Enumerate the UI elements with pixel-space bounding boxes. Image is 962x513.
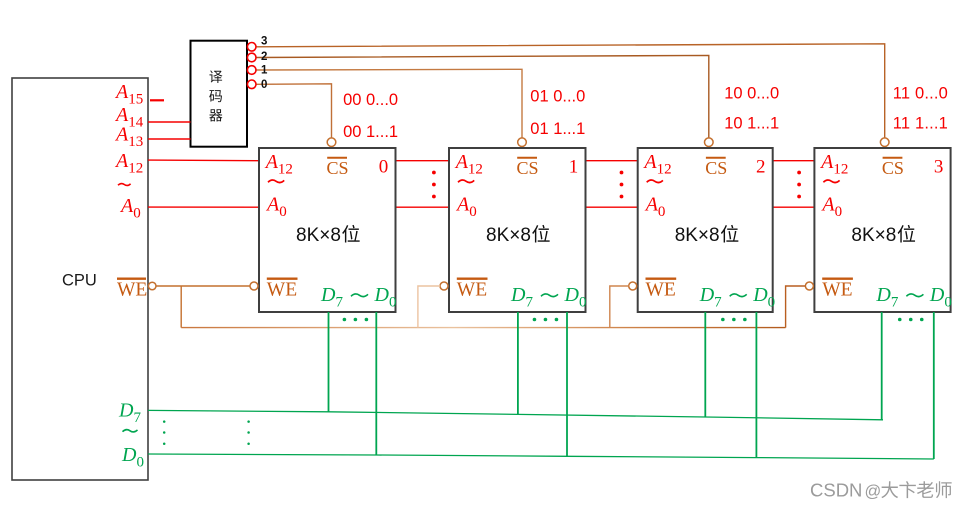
svg-text:CPU: CPU (62, 272, 97, 290)
green ellipsis x=248.6 (247, 420, 250, 445)
wire D7 vertical chip3 (704, 312, 706, 417)
green dots below chip1 (343, 318, 369, 322)
svg-text:01 0...0: 01 0...0 (530, 88, 585, 106)
svg-text:00 1...1: 00 1...1 (343, 123, 398, 141)
svg-text:8K×8: 8K×8 (851, 225, 896, 246)
memory chip 3 box (638, 148, 773, 312)
CS input circle chip4 (880, 138, 889, 147)
wire D0 vertical chip1 (375, 312, 377, 455)
memory chip 2 box (449, 148, 586, 312)
CPU box (12, 78, 148, 480)
svg-text:@: @ (865, 483, 882, 501)
svg-text:WE: WE (117, 279, 147, 300)
wire D7 vertical chip1 (328, 312, 330, 412)
CS input circle chip2 (518, 138, 527, 147)
chip2 WE label (457, 278, 488, 280)
memory chip 1 box (259, 148, 396, 312)
wire D7 vertical chip4 (881, 312, 883, 420)
D0 bus (148, 454, 934, 459)
chip3 CS label (706, 157, 726, 159)
decoder output circle 3 (247, 43, 256, 52)
svg-text:10 1...1: 10 1...1 (724, 115, 779, 133)
wire A12 CPU-chip1 (148, 159, 259, 162)
decoder output circle 1 (247, 66, 256, 75)
svg-text:0: 0 (379, 156, 389, 177)
green dots below chip2 (533, 318, 559, 322)
wire A0 chip1-chip2 (396, 206, 450, 208)
chip1 CS label (327, 157, 347, 159)
svg-text:CS: CS (882, 158, 904, 178)
wire A12 chip1-chip2 (396, 160, 450, 162)
svg-text:8K×8: 8K×8 (675, 225, 720, 246)
chip4 WE label (822, 278, 853, 280)
svg-text:8K×8: 8K×8 (296, 225, 341, 246)
chip4 tilde (823, 180, 839, 183)
wire A0 CPU-chip1 (148, 206, 259, 208)
D7 bus (148, 410, 883, 419)
green dots below chip3 (721, 318, 747, 322)
chip2 CS label (517, 157, 537, 159)
wire WE bottom bus (181, 327, 785, 329)
wire D0 vertical chip2 (566, 312, 568, 456)
svg-text:8K×8: 8K×8 (486, 225, 531, 246)
chip3 WE label (646, 278, 677, 280)
svg-text:CS: CS (327, 158, 349, 178)
wire D0 vertical chip4 (933, 312, 935, 459)
svg-text:1: 1 (261, 65, 268, 77)
svg-text:3: 3 (934, 156, 944, 177)
svg-text:11 0...0: 11 0...0 (893, 85, 948, 103)
svg-text:0: 0 (261, 79, 267, 91)
wire WE riser chip2 (418, 286, 440, 328)
red ellipsis x=621.5 (620, 171, 624, 199)
svg-text:WE: WE (646, 279, 676, 300)
CS input circle chip3 (705, 138, 714, 147)
svg-text:2: 2 (261, 51, 267, 63)
svg-text:01 1...1: 01 1...1 (530, 120, 585, 138)
chip1 WE input circle (250, 282, 258, 290)
svg-text:WE: WE (457, 279, 487, 300)
wire WE CPU to chip1 (156, 285, 250, 287)
wire A0 chip2-chip3 (586, 206, 638, 208)
wire decoder output 3 (256, 44, 885, 138)
wire A12 chip3-chip4 (773, 160, 815, 162)
wire WE drop (180, 286, 182, 328)
svg-text:1: 1 (569, 156, 579, 177)
svg-text:3: 3 (261, 35, 267, 47)
wire A12 chip2-chip3 (586, 160, 638, 162)
chip4 WE input circle (805, 282, 813, 290)
chip4 CS label (883, 157, 903, 159)
decoder output circle 0 (247, 80, 256, 89)
green ellipsis x=164.2 (163, 420, 166, 445)
wire D7 vertical chip2 (517, 312, 519, 414)
svg-text:10 0...0: 10 0...0 (724, 85, 779, 103)
svg-text:11 1...1: 11 1...1 (893, 115, 948, 133)
CS input circle chip1 (327, 138, 336, 147)
chip2 WE input circle (440, 282, 448, 290)
CPU WE label (117, 278, 146, 280)
CPU WE output circle (148, 282, 156, 290)
wire decoder output 2 (256, 55, 709, 137)
CPU data tilde (123, 430, 138, 432)
svg-text:2: 2 (756, 156, 766, 177)
wire WE riser chip3 (610, 286, 629, 328)
green dots below chip4 (898, 318, 924, 322)
svg-text:WE: WE (267, 279, 297, 300)
wire WE riser chip4 (786, 286, 806, 328)
wire A0 chip3-chip4 (773, 206, 815, 208)
chip1 WE label (267, 278, 298, 280)
chip2 tilde (458, 180, 474, 183)
svg-text:CSDN: CSDN (810, 480, 862, 501)
wire A14 to decoder (148, 121, 191, 123)
wire decoder output 1 (256, 69, 522, 138)
memory chip 4 box (814, 148, 950, 312)
chip3 tilde (647, 180, 663, 183)
svg-text:WE: WE (822, 279, 852, 300)
chip3 WE input circle (629, 282, 637, 290)
svg-text:CS: CS (705, 158, 727, 178)
decoder 译码器 (191, 41, 248, 147)
wire decoder output 0 (256, 84, 332, 138)
red ellipsis x=799.1 (797, 171, 801, 199)
svg-text:00 0...0: 00 0...0 (343, 91, 398, 109)
tilde CPU addr (118, 183, 131, 185)
wire D0 vertical chip3 (755, 312, 757, 458)
svg-text:CS: CS (517, 158, 539, 178)
wire A13 to decoder (148, 138, 191, 140)
wire A15 stub (150, 99, 164, 101)
red ellipsis x=433.9 (432, 171, 436, 199)
chip1 tilde (268, 180, 284, 183)
decoder output circle 2 (247, 53, 256, 62)
